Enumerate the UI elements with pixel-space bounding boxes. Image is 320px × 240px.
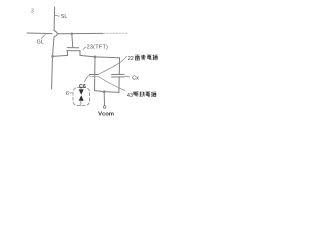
liquid crystal hourglass top triangle bbox=[79, 89, 84, 94]
wire GL left segment bbox=[27, 32, 52, 35]
transistor 23 TFT source lead bbox=[53, 51, 68, 57]
terminal Vcom circle bbox=[103, 106, 106, 109]
liquid crystal top lead bbox=[80, 87, 82, 90]
svg-text:Vcom: Vcom bbox=[98, 112, 114, 118]
leader 43 bbox=[99, 77, 125, 91]
wire SL vertical lower bbox=[52, 37, 54, 89]
transistor 23 TFT gate lead bbox=[72, 34, 73, 48]
label kanji drive-electrode bbox=[134, 92, 157, 98]
wire GL right segment bbox=[58, 32, 103, 34]
label kanji pixel-electrode bbox=[135, 55, 157, 61]
junction SL-source node bbox=[51, 55, 54, 58]
svg-text:6: 6 bbox=[66, 91, 69, 97]
kanji DO bbox=[140, 92, 145, 97]
leader 23(TFT) bbox=[83, 47, 86, 50]
wire SL vertical upper bbox=[53, 7, 56, 31]
kanji KYOKU bbox=[151, 92, 156, 97]
transistor 23 TFT channel bbox=[67, 50, 80, 52]
kanji DEN bbox=[146, 92, 151, 97]
wire Vcom lead bbox=[103, 92, 105, 106]
wire GL fading dashes bbox=[104, 32, 128, 34]
kanji KYOKU bbox=[153, 55, 158, 60]
svg-text:3: 3 bbox=[31, 8, 35, 14]
capacitor C6 bottom plate (drive electrode 43) bbox=[90, 75, 99, 77]
leader Cx bbox=[125, 75, 130, 78]
transistor 23 TFT drain lead bbox=[80, 51, 95, 57]
wire SL hop over GL bbox=[54, 31, 57, 38]
liquid crystal hourglass bottom triangle bbox=[79, 95, 84, 101]
leader C6 bbox=[84, 75, 89, 82]
svg-text:SL: SL bbox=[61, 14, 68, 20]
svg-text:GL: GL bbox=[37, 39, 44, 45]
wire drain node to Cx corner bbox=[95, 56, 120, 59]
wire pixel branch vertical bbox=[94, 57, 97, 91]
liquid crystal element 6 dashed box bbox=[73, 88, 90, 106]
capacitor C6 top plate (pixel electrode 22) bbox=[90, 73, 99, 75]
capacitor Cx top plate bbox=[112, 73, 125, 75]
capacitor Cx bottom plate bbox=[112, 76, 125, 78]
kanji GA bbox=[135, 55, 140, 60]
kanji KU bbox=[134, 92, 139, 96]
svg-text:C6: C6 bbox=[79, 84, 86, 90]
leader SL bbox=[55, 14, 59, 17]
wire common line bbox=[95, 91, 119, 93]
kanji SO bbox=[141, 55, 146, 60]
leader 22 bbox=[100, 56, 127, 73]
capacitor Cx top lead bbox=[118, 58, 120, 74]
junction gate node on GL bbox=[71, 32, 74, 35]
junction Vcom node bbox=[103, 90, 106, 93]
svg-text:22: 22 bbox=[128, 56, 134, 62]
capacitor Cx bottom lead bbox=[118, 77, 120, 92]
svg-text:43: 43 bbox=[127, 93, 133, 99]
svg-text:23(TFT): 23(TFT) bbox=[87, 44, 108, 50]
liquid crystal bottom lead bbox=[80, 101, 82, 106]
junction pixel node bbox=[94, 56, 97, 59]
leader 6 dash bbox=[70, 92, 72, 94]
leader GL bbox=[41, 35, 45, 39]
transistor 23 TFT gate bar bbox=[67, 47, 78, 49]
kanji DEN bbox=[147, 55, 152, 60]
svg-text:Cx: Cx bbox=[132, 76, 139, 82]
